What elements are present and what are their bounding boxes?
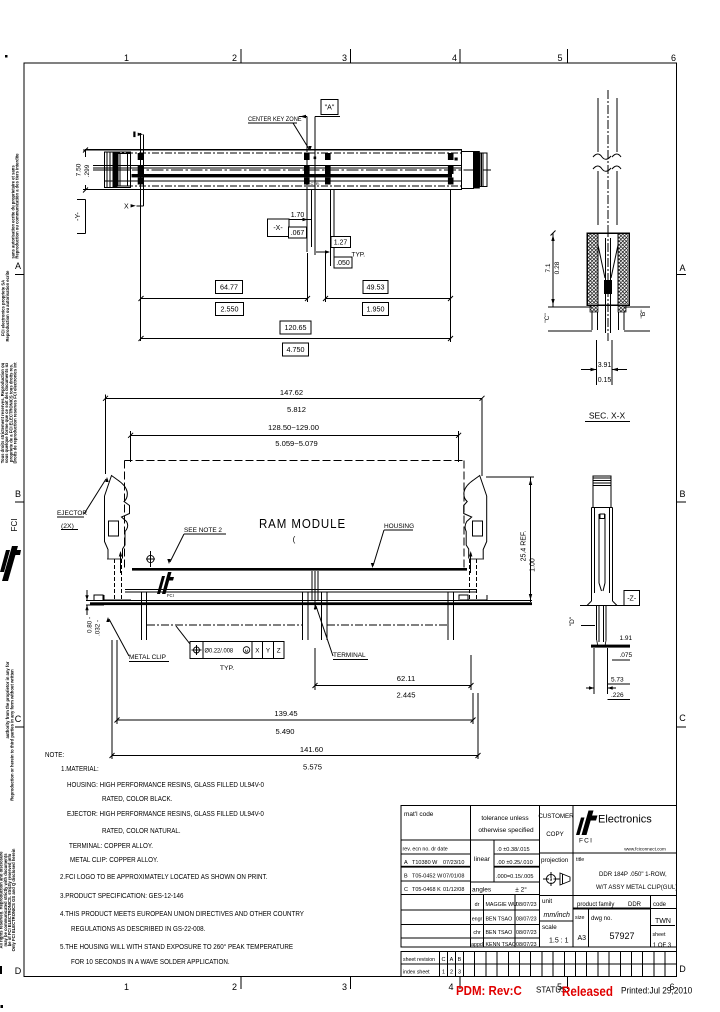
svg-text:C: C xyxy=(442,957,446,963)
svg-text:3.91: 3.91 xyxy=(598,362,612,369)
svg-text:engr: engr xyxy=(472,917,483,923)
right ejector front view xyxy=(464,476,487,559)
FCI logo title block xyxy=(582,811,594,836)
svg-text:08/07/23: 08/07/23 xyxy=(516,917,537,923)
svg-text:rev. ecn no. dr date: rev. ecn no. dr date xyxy=(403,847,448,853)
svg-text:2.550: 2.550 xyxy=(221,305,239,314)
svg-text:W/T ASSY METAL CLIP(GUL): W/T ASSY METAL CLIP(GUL) xyxy=(596,884,677,891)
svg-text:"A": "A" xyxy=(325,105,335,112)
svg-text:5.73: 5.73 xyxy=(611,677,624,684)
svg-text:M: M xyxy=(245,648,249,653)
svg-text:size: size xyxy=(575,915,584,921)
svg-text:TYP.: TYP. xyxy=(352,252,366,259)
svg-text:CENTER KEY ZONE: CENTER KEY ZONE xyxy=(248,117,302,123)
dim 128.50~129.00 / 5.059~5.079 xyxy=(130,431,132,462)
housing top lines xyxy=(125,589,477,591)
svg-text:sheet revision: sheet revision xyxy=(403,957,435,963)
feature control frame xyxy=(190,642,284,659)
svg-text:1.MATERIAL:: 1.MATERIAL: xyxy=(61,766,99,773)
svg-text:NOTE:: NOTE: xyxy=(45,752,64,759)
svg-text:-Y-: -Y- xyxy=(75,211,82,220)
svg-text:25.4 REF.: 25.4 REF. xyxy=(521,531,528,562)
dim 141.60/5.575 xyxy=(111,640,113,759)
terminal pin elevation xyxy=(607,90,609,228)
side view base xyxy=(587,601,592,606)
svg-text:SEC. X-X: SEC. X-X xyxy=(589,411,626,421)
svg-text:"B": "B" xyxy=(640,309,647,319)
svg-text:A: A xyxy=(450,957,454,963)
svg-text:.075: .075 xyxy=(620,652,633,659)
svg-text:2.FCI LOGO TO BE APPROXIMATELY: 2.FCI LOGO TO BE APPROXIMATELY LOCATED A… xyxy=(60,874,267,881)
svg-text:DDR 184P .050" 1-ROW,: DDR 184P .050" 1-ROW, xyxy=(599,871,667,878)
pcb / board line xyxy=(90,600,532,602)
svg-text:FCI electronics propriete SA: FCI electronics propriete SA xyxy=(1,280,6,336)
revision table rows xyxy=(401,839,470,841)
svg-text:index sheet: index sheet xyxy=(403,970,430,976)
svg-text:5.059~5.079: 5.059~5.079 xyxy=(275,439,317,448)
title block outline xyxy=(401,806,677,948)
svg-text:FCI: FCI xyxy=(10,519,19,532)
svg-text:authority from the proprietor: authority from the proprietor in any for xyxy=(5,661,10,738)
center key zone lines xyxy=(306,117,308,253)
side view tower xyxy=(591,508,593,602)
svg-text:linear: linear xyxy=(474,856,491,863)
svg-text:D: D xyxy=(679,964,686,974)
svg-text:1.27: 1.27 xyxy=(334,240,348,247)
svg-text:HOUSING: HIGH PERFORMANCE RESI: HOUSING: HIGH PERFORMANCE RESINS, GLASS … xyxy=(67,782,264,789)
svg-text:unit: unit xyxy=(542,898,552,905)
svg-text:mm/inch: mm/inch xyxy=(544,912,571,919)
svg-text:3: 3 xyxy=(458,970,461,976)
svg-text:www.fciconnect.com: www.fciconnect.com xyxy=(624,847,666,852)
svg-text:sans autorisation ecrite du pr: sans autorisation ecrite du proprietaire… xyxy=(10,165,15,259)
svg-text:Ø0.22/.008: Ø0.22/.008 xyxy=(205,649,234,655)
svg-text:KENN TSAO: KENN TSAO xyxy=(486,942,517,948)
svg-text:FCI: FCI xyxy=(167,593,174,598)
svg-text:-Z-: -Z- xyxy=(627,596,637,603)
svg-text:1.00: 1.00 xyxy=(530,558,537,572)
FCI logo on housing xyxy=(162,572,172,594)
svg-text:.000=0.15/.005: .000=0.15/.005 xyxy=(496,874,533,880)
svg-text:B: B xyxy=(15,489,21,499)
svg-text:.0 ±0.38/.015: .0 ±0.38/.015 xyxy=(497,847,530,853)
svg-text:EJECTOR: HIGH PERFORMANCE RESI: EJECTOR: HIGH PERFORMANCE RESINS, GLASS … xyxy=(67,811,264,818)
svg-text:3: 3 xyxy=(342,982,347,992)
terminal tip phantom line xyxy=(147,624,302,626)
svg-text:.226: .226 xyxy=(611,692,624,699)
svg-text:TERMINAL: TERMINAL xyxy=(333,652,366,659)
svg-text:Z: Z xyxy=(277,648,281,655)
svg-text:64.77: 64.77 xyxy=(220,283,238,292)
svg-text:T05-0468 K: T05-0468 K xyxy=(412,887,441,893)
svg-text:1: 1 xyxy=(124,982,129,992)
svg-text:0.28: 0.28 xyxy=(554,261,561,274)
svg-text:TERMINAL: COPPER ALLOY.: TERMINAL: COPPER ALLOY. xyxy=(69,843,153,850)
svg-text:Tous droits strictement reserv: Tous droits strictement reserves. Reprod… xyxy=(0,362,5,463)
svg-text:PDM: Rev:C: PDM: Rev:C xyxy=(456,984,522,999)
svg-text:5.812: 5.812 xyxy=(287,405,306,414)
svg-text:HOUSING: HOUSING xyxy=(384,523,414,530)
svg-text:A: A xyxy=(15,261,21,271)
dim C left standoff xyxy=(548,330,592,332)
svg-text:Y: Y xyxy=(266,648,271,655)
title cell xyxy=(573,852,677,854)
svg-text:62.11: 62.11 xyxy=(397,674,415,683)
datum box -Z- xyxy=(624,591,640,606)
svg-text:4.750: 4.750 xyxy=(287,345,305,354)
svg-text:EJECTOR: EJECTOR xyxy=(57,510,87,517)
svg-text:D: D xyxy=(15,966,22,976)
svg-text:CUSTOMER: CUSTOMER xyxy=(538,813,574,820)
svg-text:-X-: -X- xyxy=(273,225,283,232)
terminal position marks xyxy=(138,153,144,160)
svg-text:chr: chr xyxy=(473,930,481,936)
svg-text:B: B xyxy=(679,489,685,499)
svg-text:sheet: sheet xyxy=(653,932,666,938)
approval rows xyxy=(470,909,539,911)
svg-text:49.53: 49.53 xyxy=(367,283,385,292)
svg-text:TWN: TWN xyxy=(655,918,671,925)
svg-text:All rights reserved. Reproduct: All rights reserved. Reproduction and di… xyxy=(0,851,4,949)
svg-text:Printed:Jul 29,2010: Printed:Jul 29,2010 xyxy=(621,985,692,995)
svg-text:5.490: 5.490 xyxy=(275,727,294,736)
svg-text:X: X xyxy=(124,204,129,211)
svg-text:6: 6 xyxy=(671,53,676,63)
svg-text:5.THE HOUSING WILL WITH STAND: 5.THE HOUSING WILL WITH STAND EXPOSURE T… xyxy=(60,943,293,952)
svg-text:X: X xyxy=(255,648,260,655)
svg-text:2: 2 xyxy=(450,970,453,976)
svg-text:COPY: COPY xyxy=(546,831,564,838)
svg-text:2.445: 2.445 xyxy=(396,691,415,700)
svg-text:projection: projection xyxy=(541,857,569,864)
svg-text:A: A xyxy=(679,263,685,273)
RAM module outline (phantom) xyxy=(125,459,465,461)
svg-text:Released: Released xyxy=(562,984,613,999)
svg-text:147.62: 147.62 xyxy=(280,388,303,397)
left metal clip detail xyxy=(94,595,103,601)
dim 5.73/.226 xyxy=(593,648,595,694)
svg-text:mat'l code: mat'l code xyxy=(404,811,434,818)
svg-text:dr: dr xyxy=(475,902,480,908)
svg-text:1: 1 xyxy=(124,53,129,63)
svg-text:B: B xyxy=(458,957,462,963)
svg-text:.050: .050 xyxy=(336,260,350,267)
side view cap xyxy=(593,476,611,508)
svg-text:scale: scale xyxy=(542,924,557,931)
svg-text:3.PRODUCT SPECIFICATION: GES-1: 3.PRODUCT SPECIFICATION: GES-12-146 xyxy=(60,893,184,900)
svg-text:tolerance unless: tolerance unless xyxy=(481,815,529,822)
svg-text:08/07/23: 08/07/23 xyxy=(516,930,537,936)
dim 1.27 TYP/.050 xyxy=(331,237,351,248)
svg-text:4.THIS PRODUCT MEETS EUROPEAN: 4.THIS PRODUCT MEETS EUROPEAN UNION DIRE… xyxy=(60,911,304,918)
svg-text:angles: angles xyxy=(472,887,492,894)
svg-text:SEE NOTE 2: SEE NOTE 2 xyxy=(184,527,222,534)
side view pins xyxy=(596,606,598,641)
svg-text:DDR: DDR xyxy=(628,902,642,908)
svg-text:7.50: 7.50 xyxy=(76,163,83,176)
terminals below housing xyxy=(141,592,143,640)
svg-text:.032 -: .032 - xyxy=(95,620,102,636)
svg-text:3: 3 xyxy=(342,53,347,63)
svg-text:T05-0452 W: T05-0452 W xyxy=(412,874,443,880)
center key slot walls xyxy=(311,571,313,600)
section feet / legs xyxy=(590,305,598,312)
dim 25.4 REF / 1.00 xyxy=(486,476,534,478)
svg-text:RAM MODULE: RAM MODULE xyxy=(259,517,346,532)
svg-text:REGULATIONS AS DESCRIBED IN GS: REGULATIONS AS DESCRIBED IN GS-22-008. xyxy=(71,926,205,933)
stray print specks xyxy=(5,55,8,58)
dim 147.62/5.812 overall length xyxy=(105,395,107,474)
svg-text:product family: product family xyxy=(577,902,614,908)
svg-text:7.1: 7.1 xyxy=(545,263,552,272)
svg-text:otherwise specified: otherwise specified xyxy=(478,827,534,834)
svg-text:2: 2 xyxy=(232,982,237,992)
datum box -X- xyxy=(267,219,289,237)
svg-text:dwg no.: dwg no. xyxy=(591,916,612,922)
svg-text:C: C xyxy=(679,713,686,723)
dim 3.91/0.15 xyxy=(596,340,598,385)
svg-text:0.80 -: 0.80 - xyxy=(87,617,94,633)
dim 49.53/1.950 xyxy=(325,253,327,302)
svg-text:0.15: 0.15 xyxy=(598,377,612,384)
svg-text:4: 4 xyxy=(452,53,457,63)
svg-text:METAL CLIP: COPPER ALLOY.: METAL CLIP: COPPER ALLOY. xyxy=(70,857,158,864)
svg-text:BEN TSAO: BEN TSAO xyxy=(486,930,513,936)
svg-text:1.950: 1.950 xyxy=(367,305,385,314)
svg-text:"D": "D" xyxy=(569,616,576,626)
FCI logo left margin xyxy=(2,546,18,581)
section cavity funnel xyxy=(598,245,605,278)
svg-text:C: C xyxy=(15,714,22,724)
dim B right standoff xyxy=(624,306,650,308)
side view pcb line xyxy=(591,645,630,648)
svg-text:FCI: FCI xyxy=(579,838,593,845)
svg-text:120.65: 120.65 xyxy=(285,323,307,332)
svg-text:1 OF 3: 1 OF 3 xyxy=(653,943,672,949)
svg-text:TYP.: TYP. xyxy=(220,665,234,672)
svg-text:57927: 57927 xyxy=(609,931,634,941)
dim 64.77/2.550 xyxy=(307,253,309,302)
svg-text:(: ( xyxy=(293,535,296,544)
svg-text:METAL CLIP: METAL CLIP xyxy=(129,654,167,661)
svg-text:08/07/23: 08/07/23 xyxy=(516,942,537,948)
svg-text:5.575: 5.575 xyxy=(303,763,322,772)
top view right end cap xyxy=(462,152,474,189)
svg-text:.00 ±0.25/.010: .00 ±0.25/.010 xyxy=(497,860,533,866)
svg-text:T10380 W: T10380 W xyxy=(412,860,438,866)
svg-text:Electronics: Electronics xyxy=(598,814,652,826)
dim 62.11/2.445 xyxy=(314,648,316,690)
svg-text:1.70: 1.70 xyxy=(291,212,305,219)
svg-text:07/23/10: 07/23/10 xyxy=(443,860,464,866)
datum -Y- xyxy=(77,199,86,201)
svg-text:FOR 10 SECONDS IN A WAVE SOLDE: FOR 10 SECONDS IN A WAVE SOLDER APPLICAT… xyxy=(71,959,230,966)
sheet revision / index table xyxy=(401,952,677,977)
svg-text:4: 4 xyxy=(448,982,453,992)
svg-text:1.91: 1.91 xyxy=(620,635,633,642)
svg-text:MAGGIE WU: MAGGIE WU xyxy=(486,902,518,908)
svg-text:1: 1 xyxy=(442,970,445,976)
dim 120.65/4.750 xyxy=(141,338,451,340)
svg-text:code: code xyxy=(653,902,667,908)
size / dwg no row xyxy=(573,908,651,910)
svg-text:A: A xyxy=(404,860,408,866)
svg-text:± 2°: ± 2° xyxy=(515,886,527,894)
svg-text:2: 2 xyxy=(232,53,237,63)
svg-text:.299: .299 xyxy=(84,164,91,177)
svg-text:139.45: 139.45 xyxy=(274,709,297,718)
svg-text:A3: A3 xyxy=(578,935,587,942)
svg-text:1.5 : 1: 1.5 : 1 xyxy=(549,938,569,945)
top view left ejector xyxy=(105,152,131,188)
dim 139.45/5.490 xyxy=(116,640,118,724)
svg-text:(2X): (2X) xyxy=(61,523,74,530)
top view: connector housing outline xyxy=(86,150,462,190)
svg-text:07/01/08: 07/01/08 xyxy=(443,874,464,880)
svg-text:01/12/08: 01/12/08 xyxy=(443,887,464,893)
datum X centerline xyxy=(139,133,141,341)
section label A box xyxy=(299,116,307,118)
svg-text:RATED, COLOR BLACK.: RATED, COLOR BLACK. xyxy=(102,796,173,803)
svg-text:.067: .067 xyxy=(291,230,305,237)
left ejector front view xyxy=(105,476,130,559)
dim 7.50/.299 left of top view xyxy=(85,150,87,190)
top view internal horizontal lines xyxy=(113,152,462,154)
svg-text:141.60: 141.60 xyxy=(300,745,323,754)
svg-text:appd: appd xyxy=(471,942,483,948)
svg-text:5: 5 xyxy=(557,53,562,63)
svg-text:"C": "C" xyxy=(544,313,551,323)
svg-text:C: C xyxy=(404,887,408,893)
dim 7.1/0.28 section height xyxy=(552,233,554,307)
svg-text:128.50~129.00: 128.50~129.00 xyxy=(268,423,319,432)
svg-text:B: B xyxy=(404,874,408,880)
position target symbol xyxy=(147,555,154,562)
svg-text:08/07/23: 08/07/23 xyxy=(516,902,537,908)
svg-text:title: title xyxy=(576,857,584,863)
svg-text:BEN TSAO: BEN TSAO xyxy=(486,917,513,923)
svg-text:RATED, COLOR NATURAL.: RATED, COLOR NATURAL. xyxy=(102,828,181,835)
